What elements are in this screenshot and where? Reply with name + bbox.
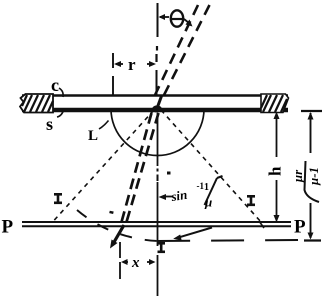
plate P: bottom line bbox=[22, 225, 291, 227]
wire: refracted beam below slab left dashed bbox=[122, 113, 152, 222]
wire: cone dashed line left (critical angle) bbox=[54, 110, 155, 221]
dimension h: line with arrows bbox=[274, 112, 280, 223]
svg-text:c: c bbox=[51, 75, 59, 95]
svg-text:L: L bbox=[88, 128, 98, 144]
plate P: top line bbox=[22, 221, 291, 223]
node axis: vertical dash-dot centerline bbox=[157, 3, 158, 296]
svg-text:x: x bbox=[131, 255, 140, 271]
label I right bbox=[247, 196, 255, 205]
hatched block right end of slab bbox=[261, 94, 289, 113]
dimension x: left tick dashed bbox=[119, 242, 121, 258]
hatched block left end of slab bbox=[20, 94, 53, 113]
svg-text:h: h bbox=[266, 166, 285, 176]
svg-text:μ-1: μ-1 bbox=[306, 167, 321, 186]
dimension r: right arrow bbox=[147, 61, 156, 67]
label I left bbox=[54, 194, 62, 203]
dimension mu r / (mu-1): bottom tick bbox=[304, 239, 321, 241]
label I image point bbox=[158, 243, 166, 252]
wire: cone dashed line right (critical angle) bbox=[161, 110, 261, 222]
wire: refracted beam below slab right dashed bbox=[127, 113, 159, 222]
slab bottom thick line (slide s) bbox=[22, 108, 288, 112]
dimension r: left tick bbox=[112, 53, 114, 68]
svg-text:r: r bbox=[128, 55, 136, 74]
wire: theta pointer arrow to axis bbox=[159, 14, 170, 20]
dimension r: left arrow bbox=[114, 61, 123, 67]
wire: incident beam dashed line right bbox=[164, 5, 210, 95]
svg-text:s: s bbox=[46, 114, 53, 134]
wire: beam dash inside slab gap bbox=[158, 96, 162, 107]
wire: curved image surface dashed arc left part bbox=[77, 210, 157, 241]
label sin^-1 1/mu with arrow bbox=[159, 194, 173, 200]
wire: small arrow from theta to beam bbox=[184, 19, 193, 27]
svg-text:μr: μr bbox=[290, 169, 305, 183]
svg-text:μ: μ bbox=[204, 195, 212, 210]
label theta bbox=[171, 10, 183, 26]
stray speck above plate bbox=[109, 211, 113, 214]
svg-text:sin: sin bbox=[169, 187, 188, 204]
lens arc L: solid semicircle under slab bbox=[111, 109, 204, 156]
dimension x: left arrow bbox=[121, 259, 128, 265]
svg-text:P: P bbox=[294, 217, 306, 238]
node focus blob at slab centre bbox=[152, 105, 162, 112]
svg-text:P: P bbox=[2, 217, 14, 238]
wire: arrow along image surface pointing left near image point bbox=[173, 228, 212, 241]
svg-text:1: 1 bbox=[204, 182, 209, 193]
wire: curved image surface dashed arc right part bbox=[157, 240, 301, 241]
slab top line (cover glass c) bbox=[22, 94, 288, 96]
wire: beam exit arrow below plate bbox=[110, 225, 124, 249]
dimension mu r / (mu-1): line with arrows bbox=[308, 112, 314, 240]
wire: small hook below plate at right cone end bbox=[259, 221, 264, 228]
dimension mu r / (mu-1): top tick bbox=[301, 110, 322, 112]
wire: incident beam dashed line left bbox=[155, 5, 198, 95]
dimension x: right arrow bbox=[147, 259, 156, 265]
stray dot bbox=[167, 172, 171, 175]
